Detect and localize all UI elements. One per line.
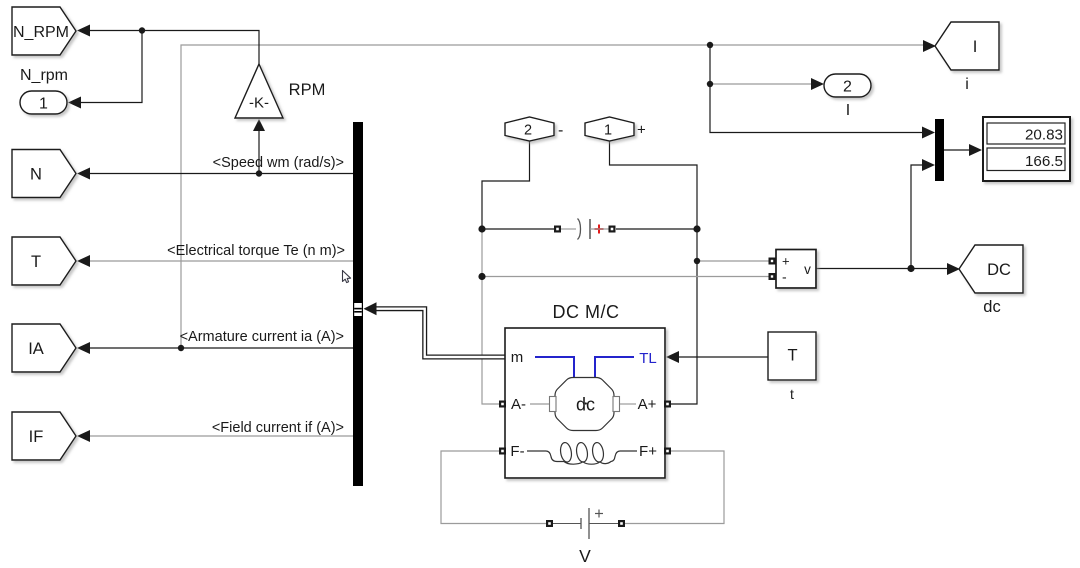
svg-text:A+: A+: [638, 396, 657, 413]
svg-text:-K-: -K-: [249, 95, 269, 112]
svg-text:<Field current if (A)>: <Field current if (A)>: [212, 420, 344, 436]
wire: field winding F- to battery: [441, 451, 547, 524]
machine port F-: [499, 448, 506, 455]
arrow into outport 2: [811, 78, 824, 90]
goto tag IA: [12, 324, 76, 372]
svg-text:N_rpm: N_rpm: [20, 67, 68, 84]
svg-text:1: 1: [604, 123, 612, 139]
wire: electrical torque to T tag: [90, 260, 353, 262]
svg-text:2: 2: [524, 123, 532, 139]
svg-text:t: t: [790, 386, 794, 402]
wire: node A- to source left terminal: [482, 228, 554, 230]
gray lead left: [561, 228, 576, 230]
wire: speed wm to N tag: [90, 173, 353, 175]
svg-text:TL: TL: [639, 350, 657, 367]
wire: branch up to mux bottom input: [911, 165, 924, 269]
DC source element between A- and A+: [554, 219, 616, 240]
coil loop 2: [575, 442, 589, 463]
svg-text:+: +: [637, 122, 646, 139]
mux: [935, 119, 944, 181]
left connection port: [554, 226, 561, 233]
svg-text:2: 2: [843, 79, 852, 96]
lead right: [589, 523, 618, 525]
svg-text:V: V: [579, 546, 591, 566]
left brush: [550, 397, 557, 412]
wire: from port 2(-) down to node A-: [482, 141, 530, 229]
coil loop 1: [559, 442, 573, 463]
DC machine block: [505, 328, 665, 478]
svg-text:A-: A-: [511, 396, 526, 413]
bus selector bar: [353, 122, 363, 486]
svg-text:RPM: RPM: [289, 81, 326, 99]
wire: field current to IF tag: [90, 435, 353, 437]
right connection port: [618, 520, 625, 527]
arrow into N_RPM: [77, 25, 90, 37]
wire: T constant to TL input: [678, 356, 768, 358]
svg-text:F-: F-: [510, 443, 524, 460]
plus sign: [595, 510, 603, 518]
arrow into T: [77, 255, 90, 267]
svg-text:F+: F+: [639, 443, 657, 460]
outport 1: [20, 91, 67, 114]
svg-text:i: i: [965, 76, 969, 93]
svg-text:-: -: [782, 269, 787, 285]
outport 2: [824, 74, 871, 97]
svg-text:v: v: [804, 262, 811, 277]
wire: gain output to N_RPM and outport 1: [90, 31, 259, 65]
arrow into gain input: [253, 119, 265, 131]
wire: armature current to IA tag: [90, 347, 353, 349]
display block: [983, 117, 1070, 181]
red plus: [595, 225, 604, 234]
svg-text:T: T: [787, 347, 797, 365]
gray lead right: [590, 228, 609, 230]
port 1 (+): [585, 117, 634, 141]
wire: v output to DC tag: [816, 268, 948, 270]
blue mechanical lines: [535, 357, 634, 377]
long plate: [588, 508, 590, 539]
lead left: [553, 523, 581, 525]
machine port A+: [664, 401, 671, 408]
gain RPM: [235, 64, 283, 118]
svg-text:-: -: [558, 122, 563, 139]
wire: v- measurement tap: [482, 276, 770, 278]
arrow into TL port: [666, 351, 679, 363]
from tag DC: [959, 245, 1023, 293]
svg-text:1: 1: [39, 96, 48, 113]
arrow into N: [77, 168, 90, 180]
lead A+: [620, 403, 636, 405]
dc middle dot: [585, 402, 587, 404]
svg-text:N: N: [30, 166, 42, 184]
goto tag IF: [12, 412, 76, 460]
mouse cursor: [343, 271, 351, 283]
goto tag N: [12, 150, 76, 198]
wire: v+ measurement tap: [697, 260, 770, 262]
svg-text:I: I: [846, 102, 850, 119]
wire: A- vertical down to machine A- port: [482, 229, 500, 404]
short plate: [580, 518, 582, 529]
v block port +: [769, 258, 776, 265]
straight plate: [589, 219, 591, 239]
display value box 1: [987, 123, 1065, 144]
wire: A+ vertical down to machine A+ port: [671, 229, 697, 404]
svg-text:T: T: [31, 253, 41, 271]
display value box 2: [987, 148, 1065, 171]
constant T block: [768, 332, 816, 380]
field winding coil: [527, 451, 637, 464]
svg-text:IA: IA: [28, 340, 44, 358]
right brush: [613, 397, 620, 412]
battery V: [546, 508, 625, 539]
right connection port: [609, 226, 616, 233]
arrow into IA: [77, 342, 90, 354]
wire: branch down to outport 1: [81, 31, 142, 103]
voltage measurement block v: [776, 250, 816, 289]
from tag I: [935, 22, 999, 70]
svg-text:<Speed wm (rad/s)>: <Speed wm (rad/s)>: [213, 155, 344, 171]
bus: double line from machine m port to bus selector: [364, 302, 506, 357]
arrow into outport 1: [68, 97, 81, 109]
svg-text:<Armature current ia (A)>: <Armature current ia (A)>: [180, 329, 344, 345]
arrow into I tag: [923, 40, 936, 52]
svg-text:20.83: 20.83: [1025, 127, 1063, 144]
wire: branch to outport 2: [710, 83, 812, 85]
svg-text:dc: dc: [983, 298, 1000, 316]
arrow into mux bottom input: [922, 159, 935, 171]
curved plate: [578, 219, 581, 240]
svg-text:I: I: [973, 38, 978, 56]
machine port F+: [664, 448, 671, 455]
goto tag T: [12, 237, 76, 285]
svg-text:+: +: [782, 254, 790, 269]
arrow into IF: [77, 430, 90, 442]
wire: gray net from IA junction up and across top to I tag: [181, 45, 931, 348]
svg-text:DC: DC: [987, 261, 1011, 279]
port 2 (-): [505, 117, 554, 141]
machine port A-: [499, 401, 506, 408]
motor circle: [555, 378, 614, 431]
left connection port: [546, 520, 553, 527]
arrow into DC tag: [947, 263, 960, 275]
svg-text:IF: IF: [29, 428, 44, 446]
arrow into display: [969, 144, 982, 156]
v block port -: [769, 273, 776, 280]
goto tag N_RPM: [12, 7, 76, 55]
svg-text:N_RPM: N_RPM: [13, 24, 69, 41]
svg-text:<Electrical torque Te (n m)>: <Electrical torque Te (n m)>: [167, 243, 345, 259]
svg-text:m: m: [511, 349, 524, 366]
svg-text:DC M/C: DC M/C: [553, 302, 620, 322]
arrowheads into left tags: [68, 25, 982, 443]
wire: from port 1(+) down to node A+: [610, 141, 698, 229]
wire: gain input from speed wire: [258, 131, 260, 174]
lead A-: [530, 403, 549, 405]
wire: source right terminal to node A+: [616, 228, 697, 230]
wire: mux output to display: [944, 149, 970, 151]
coil loop 3: [591, 442, 605, 463]
svg-text:166.5: 166.5: [1025, 153, 1063, 170]
wire: battery to field winding F+: [624, 451, 724, 524]
arrow into mux top input: [922, 127, 935, 139]
wire: vertical from top gray line down to mux top input: [710, 45, 924, 133]
